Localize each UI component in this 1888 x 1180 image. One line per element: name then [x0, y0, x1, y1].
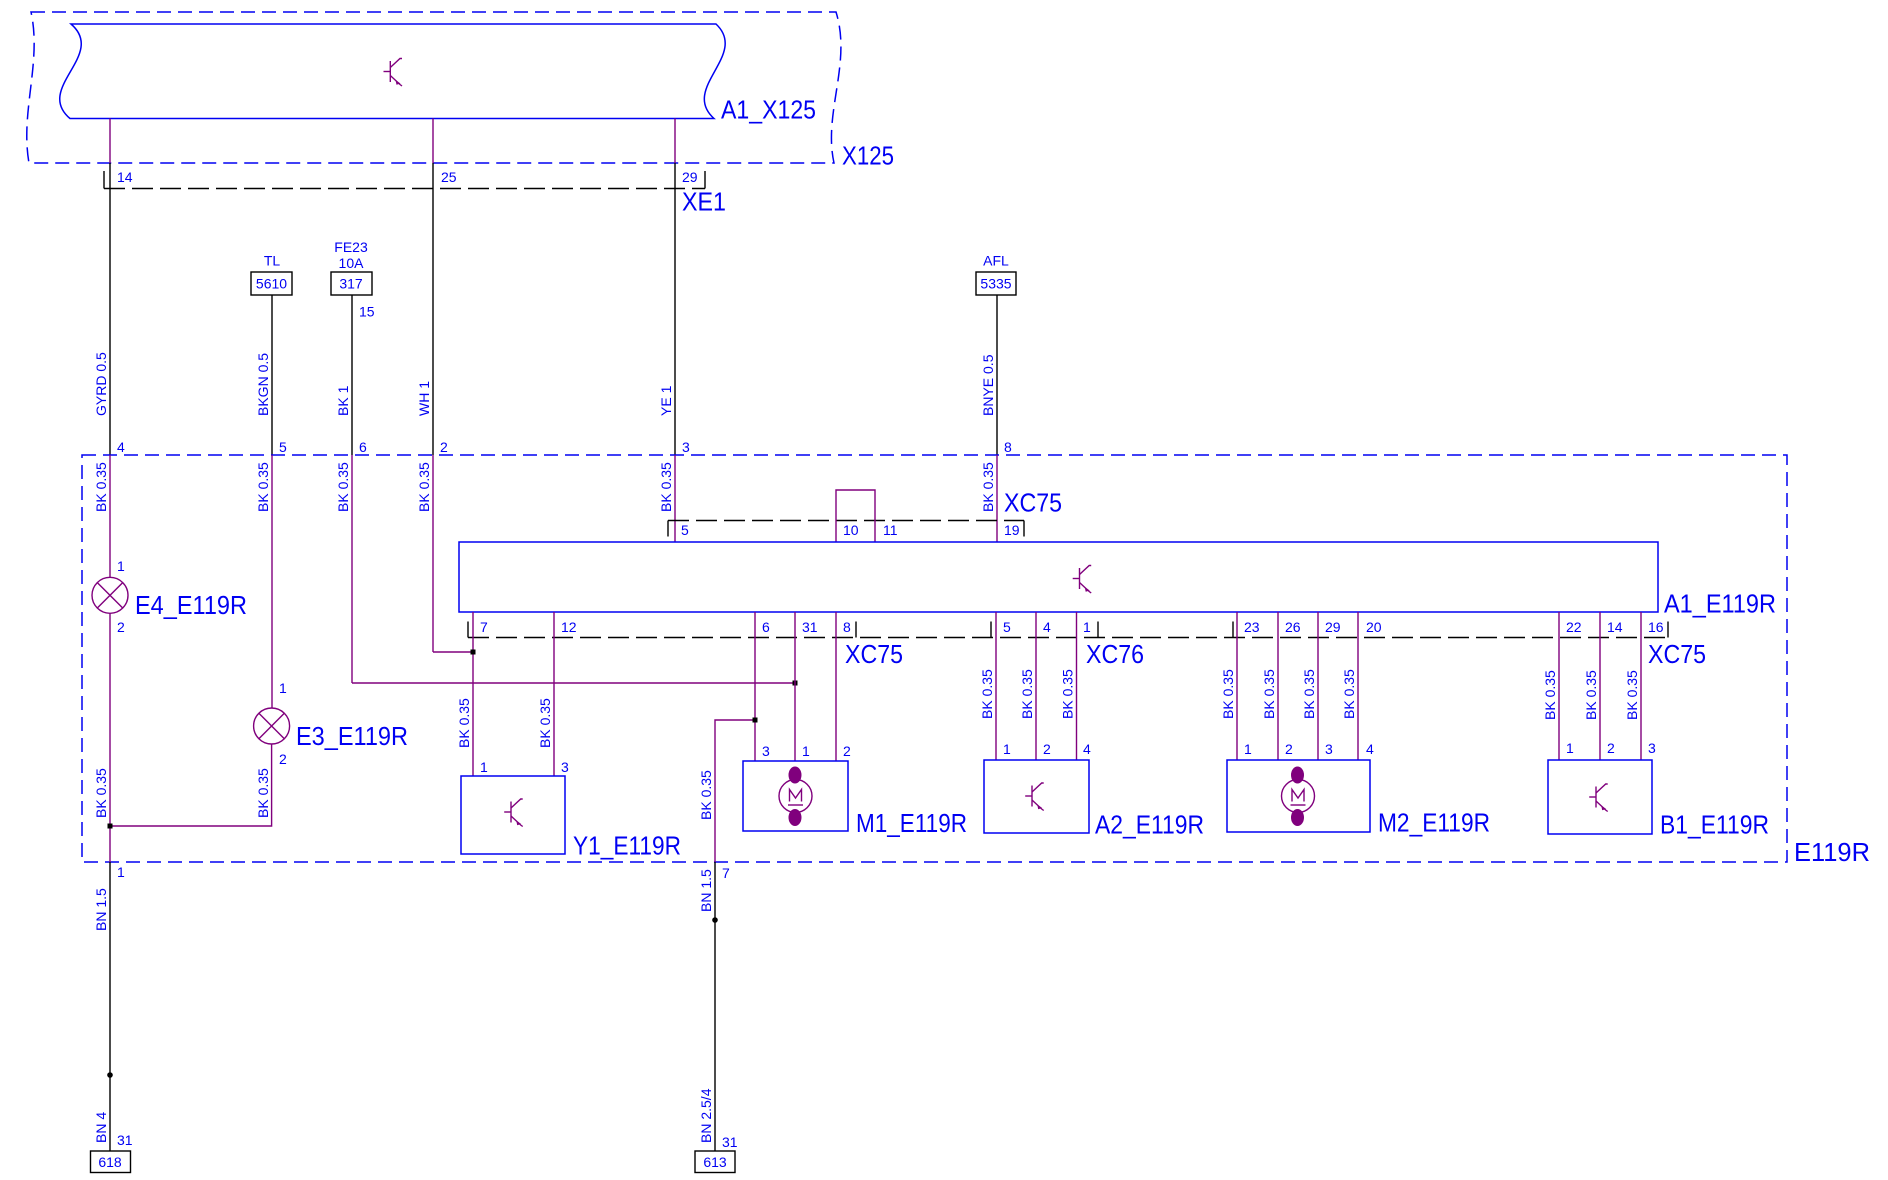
svg-text:3: 3: [682, 439, 690, 455]
wire pin12 to Y1 pin3: [553, 612, 555, 776]
svg-text:11: 11: [883, 522, 898, 538]
wire BKGN 0.5: [271, 295, 273, 455]
wire YE 1: [674, 163, 676, 455]
svg-text:4: 4: [1083, 741, 1091, 757]
svg-text:BK 0.35: BK 0.35: [93, 768, 109, 818]
tick left of pin7: [467, 622, 469, 638]
lamp E3_E119R: [254, 708, 290, 744]
svg-text:3: 3: [561, 759, 569, 775]
svg-text:5: 5: [279, 439, 287, 455]
svg-text:14: 14: [1607, 619, 1623, 635]
svg-text:BNYE 0.5: BNYE 0.5: [980, 354, 996, 416]
svg-text:BK 0.35: BK 0.35: [1542, 670, 1558, 720]
svg-text:E119R: E119R: [1794, 837, 1870, 867]
svg-text:2: 2: [843, 743, 851, 759]
XC75 upper left tick: [667, 521, 669, 537]
svg-text:31: 31: [722, 1134, 738, 1150]
svg-text:26: 26: [1285, 619, 1301, 635]
jumper wire pins 10-11: [836, 490, 875, 542]
svg-text:Y1_E119R: Y1_E119R: [573, 831, 681, 861]
svg-text:TL: TL: [264, 253, 281, 269]
svg-text:BK 0.35: BK 0.35: [93, 462, 109, 512]
svg-text:A2_E119R: A2_E119R: [1095, 810, 1204, 840]
svg-text:31: 31: [802, 619, 818, 635]
connector XC75 upper dashed line: [668, 520, 1024, 522]
svg-text:1: 1: [1003, 741, 1011, 757]
wire BK 0.35 from pin3: [674, 455, 676, 542]
wire pin6 to M1 pin3: [754, 612, 756, 761]
splice marker left: [107, 1072, 113, 1078]
connector block X125 dashed boundary: [27, 12, 841, 163]
wire BK 0.35 from pin8: [996, 455, 998, 542]
XC75 upper right tick: [1023, 521, 1025, 537]
sensor A2_E119R: [984, 760, 1089, 833]
svg-text:XC76: XC76: [1086, 639, 1144, 669]
svg-text:1: 1: [480, 759, 488, 775]
svg-text:2: 2: [1043, 741, 1051, 757]
svg-text:6: 6: [762, 619, 770, 635]
junction at pin6 wire: [753, 718, 758, 723]
motor symbol M1: [779, 767, 812, 827]
svg-text:2: 2: [117, 619, 125, 635]
svg-text:14: 14: [117, 169, 133, 185]
svg-text:15: 15: [359, 304, 375, 320]
control-unit icon inside A1_X125: [384, 59, 403, 87]
svg-text:23: 23: [1244, 619, 1260, 635]
solenoid Y1_E119R: [461, 776, 565, 854]
wire stub A1_X125 pin29: [674, 119, 676, 164]
svg-text:5: 5: [681, 522, 689, 538]
svg-text:BK 0.35: BK 0.35: [1583, 670, 1599, 720]
svg-text:AFL: AFL: [983, 253, 1009, 269]
wire branch WH1 to pin7 wire: [433, 651, 473, 653]
svg-text:BK 0.35: BK 0.35: [255, 768, 271, 818]
svg-text:2: 2: [1607, 740, 1615, 756]
svg-text:5: 5: [1003, 619, 1011, 635]
svg-text:8: 8: [843, 619, 851, 635]
svg-text:8: 8: [1004, 439, 1012, 455]
svg-text:BK 0.35: BK 0.35: [416, 462, 432, 512]
svg-text:22: 22: [1566, 619, 1582, 635]
svg-text:BN 4: BN 4: [93, 1112, 109, 1143]
svg-text:A1_X125: A1_X125: [721, 95, 816, 125]
svg-text:BK 0.35: BK 0.35: [980, 462, 996, 512]
svg-text:A1_E119R: A1_E119R: [1664, 589, 1776, 619]
wire BK 0.35 to E3: [271, 455, 273, 708]
wire BNYE 0.5: [996, 295, 998, 455]
wires to B1: [1558, 612, 1560, 760]
svg-text:BK 0.35: BK 0.35: [335, 462, 351, 512]
svg-text:19: 19: [1004, 522, 1020, 538]
control-unit icon inside A1_E119R: [1073, 566, 1092, 594]
tick right of pin1 XC76: [1097, 622, 1099, 638]
svg-text:10A: 10A: [339, 255, 365, 271]
lamp E4_E119R: [92, 577, 128, 613]
svg-text:4: 4: [117, 439, 125, 455]
tick left of pin23: [1232, 622, 1234, 638]
svg-text:XC75: XC75: [845, 639, 903, 669]
svg-text:M1_E119R: M1_E119R: [856, 808, 967, 838]
svg-text:5610: 5610: [256, 276, 287, 292]
svg-text:4: 4: [1043, 619, 1051, 635]
svg-text:WH 1: WH 1: [416, 381, 432, 416]
svg-text:10: 10: [843, 522, 859, 538]
motor symbol M2: [1282, 767, 1315, 827]
svg-text:B1_E119R: B1_E119R: [1660, 810, 1769, 840]
sensor B1_E119R: [1548, 760, 1652, 834]
XE1 left bracket tick: [103, 171, 105, 189]
tick left of pin5 XC76: [990, 622, 992, 638]
tick right of pin8: [855, 622, 857, 638]
wire GYRD 0.5: [109, 163, 111, 455]
svg-text:M2_E119R: M2_E119R: [1378, 808, 1490, 838]
svg-text:3: 3: [762, 743, 770, 759]
svg-text:1: 1: [117, 864, 125, 880]
wire BK 0.35 from pin2: [432, 455, 434, 652]
svg-text:31: 31: [117, 1132, 133, 1148]
wire E4 pin2 down: [109, 613, 111, 862]
svg-text:BK 0.35: BK 0.35: [1261, 669, 1277, 719]
svg-text:12: 12: [561, 619, 577, 635]
svg-text:BN 1.5: BN 1.5: [93, 888, 109, 931]
XE1 right bracket tick: [704, 171, 706, 189]
svg-text:BK 0.35: BK 0.35: [979, 669, 995, 719]
wire BK 0.35 to E4: [109, 455, 111, 577]
svg-text:29: 29: [682, 169, 698, 185]
svg-text:7: 7: [722, 865, 730, 881]
svg-text:1: 1: [1566, 740, 1574, 756]
svg-text:BN 2.5/4: BN 2.5/4: [698, 1088, 714, 1143]
transistor icon Y1: [504, 799, 523, 827]
svg-text:BK 0.35: BK 0.35: [658, 462, 674, 512]
svg-text:3: 3: [1325, 741, 1333, 757]
svg-text:1: 1: [1244, 741, 1252, 757]
svg-text:BN 1.5: BN 1.5: [698, 869, 714, 912]
wire branch BK1 to pin31 wire: [352, 682, 795, 684]
svg-text:1: 1: [1083, 619, 1091, 635]
wires to M2: [1236, 612, 1238, 760]
transistor icon A2: [1025, 783, 1044, 811]
motor M2_E119R: [1227, 760, 1370, 832]
svg-text:4: 4: [1366, 741, 1374, 757]
svg-text:BK 0.35: BK 0.35: [1019, 669, 1035, 719]
wire BK 1: [351, 295, 353, 455]
svg-text:613: 613: [703, 1154, 727, 1170]
svg-text:29: 29: [1325, 619, 1341, 635]
svg-text:25: 25: [441, 169, 457, 185]
svg-text:BK 1: BK 1: [335, 385, 351, 416]
ground wire right BN: [714, 862, 716, 1151]
svg-text:2: 2: [279, 751, 287, 767]
ground 618: [91, 1151, 131, 1173]
svg-text:618: 618: [98, 1154, 122, 1170]
svg-text:BK 0.35: BK 0.35: [456, 698, 472, 748]
svg-text:BK 0.35: BK 0.35: [255, 462, 271, 512]
svg-text:20: 20: [1366, 619, 1382, 635]
transistor icon B1: [1589, 784, 1608, 812]
svg-text:2: 2: [1285, 741, 1293, 757]
svg-text:FE23: FE23: [334, 239, 368, 255]
wire stub A1_X125 pin14: [109, 119, 111, 164]
wire WH 1: [432, 163, 434, 455]
svg-text:BK 0.35: BK 0.35: [1341, 669, 1357, 719]
motor M1_E119R: [743, 761, 848, 831]
control unit A1_E119R body: [459, 542, 1658, 612]
wire pin31 to M1 pin1: [794, 612, 796, 761]
svg-text:7: 7: [480, 619, 488, 635]
component area E119R dashed boundary: [82, 455, 1787, 862]
tick right of pin16: [1667, 622, 1669, 638]
svg-text:E3_E119R: E3_E119R: [296, 721, 408, 751]
svg-text:BK 0.35: BK 0.35: [1060, 669, 1076, 719]
svg-text:BK 0.35: BK 0.35: [1301, 669, 1317, 719]
svg-text:BKGN 0.5: BKGN 0.5: [255, 353, 271, 416]
control unit A1_X125 body with torn edges: [60, 24, 725, 119]
svg-text:3: 3: [1648, 740, 1656, 756]
svg-text:XC75: XC75: [1004, 488, 1062, 518]
svg-text:XC75: XC75: [1648, 639, 1706, 669]
svg-text:1: 1: [117, 558, 125, 574]
svg-text:X125: X125: [842, 141, 894, 171]
wire BK 0.35 from pin6: [351, 455, 353, 683]
wire pin8 to M1 pin2: [835, 612, 837, 761]
svg-text:XE1: XE1: [682, 187, 726, 217]
connector XE1 dashed line: [104, 188, 705, 190]
junction at pin7 wire: [471, 650, 476, 655]
svg-text:16: 16: [1648, 619, 1664, 635]
svg-text:BK 0.35: BK 0.35: [1220, 669, 1236, 719]
svg-text:1: 1: [279, 680, 287, 696]
splice marker right: [712, 917, 718, 923]
svg-text:BK 0.35: BK 0.35: [1624, 670, 1640, 720]
svg-text:1: 1: [802, 743, 810, 759]
wire pin7 to Y1 pin1: [472, 612, 474, 776]
svg-text:GYRD 0.5: GYRD 0.5: [93, 352, 109, 416]
wire E3 pin2 to E4 wire: [110, 744, 272, 826]
connector lower dashed line XC75/XC76: [468, 637, 1668, 639]
junction on E4 wire: [108, 824, 113, 829]
svg-text:YE 1: YE 1: [658, 385, 674, 416]
wire stub A1_X125 pin25: [432, 119, 434, 164]
wire branch to ground BN: [715, 720, 755, 862]
svg-text:5335: 5335: [980, 276, 1011, 292]
svg-text:BK 0.35: BK 0.35: [698, 770, 714, 820]
svg-text:317: 317: [339, 276, 363, 292]
svg-text:E4_E119R: E4_E119R: [135, 590, 247, 620]
ground wire left BN: [109, 862, 111, 1151]
svg-text:6: 6: [359, 439, 367, 455]
ground 613: [695, 1151, 735, 1173]
svg-text:BK 0.35: BK 0.35: [537, 698, 553, 748]
wires to A2: [995, 612, 997, 760]
junction at pin31 wire: [793, 681, 798, 686]
svg-text:2: 2: [440, 439, 448, 455]
